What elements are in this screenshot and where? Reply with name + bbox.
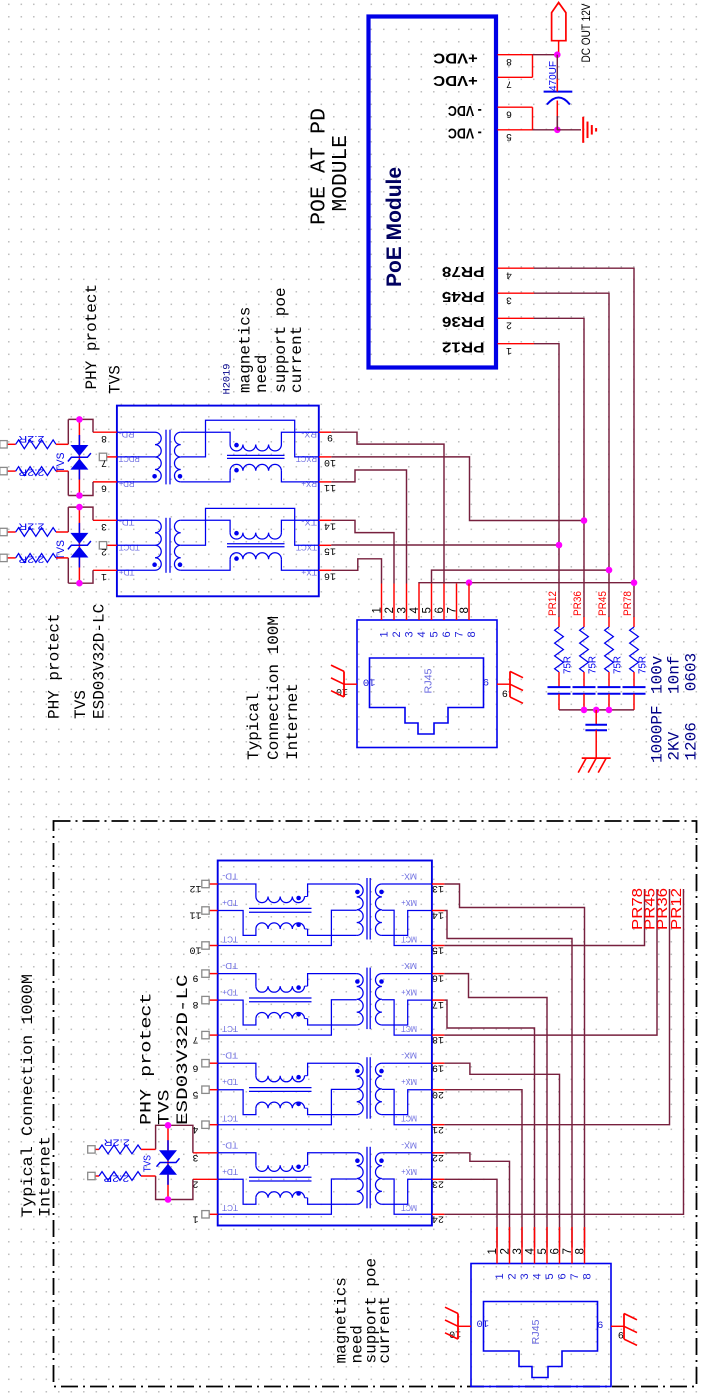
magnetics T2 pin 4	[192, 1121, 217, 1134]
svg-text:7: 7	[101, 457, 107, 468]
magnetics T2 pin 6	[192, 1060, 217, 1073]
svg-text:2: 2	[384, 607, 396, 613]
svg-text:Connection 100M: Connection 100M	[265, 616, 283, 760]
capacitor 1000PF (PR12)	[548, 687, 571, 710]
power port DC OUT 12V	[552, 3, 566, 55]
svg-text:1: 1	[379, 631, 391, 637]
svg-text:22: 22	[432, 1151, 444, 1162]
wire pin19 to RJ pin6	[444, 1063, 559, 1247]
svg-text:ESD03V32D-LC: ESD03V32D-LC	[91, 604, 109, 719]
svg-text:current: current	[288, 326, 306, 393]
PoE pin 8	[498, 55, 533, 66]
label TVS (upper TVS)	[107, 365, 125, 394]
svg-text:MX+: MX+	[401, 1077, 417, 1087]
pin names TD-/TD+/TCT unit4	[222, 1140, 238, 1213]
svg-text:23: 23	[432, 1177, 444, 1188]
label ESD03V32D-LC (100M)	[91, 604, 109, 719]
label H2019	[222, 364, 234, 395]
svg-text:MX-: MX-	[401, 1140, 417, 1150]
svg-text:7: 7	[562, 1248, 574, 1254]
svg-text:RX-: RX-	[301, 430, 317, 440]
svg-text:100v: 100v	[649, 655, 667, 694]
PoE pin 2	[498, 318, 535, 329]
label PHY protect (upper TVS)	[83, 284, 101, 390]
magnetics T1 pin 14 (TX-)	[301, 518, 336, 531]
svg-text:8: 8	[466, 631, 478, 637]
wire pin21 PR36	[444, 889, 669, 1125]
pin names MX-/MX+/MCT unit4	[401, 1140, 417, 1213]
magnetics T2 pin 2	[192, 1177, 217, 1188]
note magnetics need support poe current (100M)	[237, 287, 307, 393]
svg-text:10: 10	[189, 944, 201, 955]
svg-text:TCT: TCT	[222, 934, 238, 944]
wire net3 pin11 RX+	[331, 470, 406, 584]
svg-text:9: 9	[192, 972, 198, 983]
svg-text:PR36: PR36	[572, 591, 584, 616]
svg-text:TVS: TVS	[156, 1090, 174, 1126]
svg-text:TVS: TVS	[143, 1155, 154, 1172]
label TVS (D2)	[55, 540, 67, 560]
net label PR45 (1000M)	[642, 888, 659, 930]
svg-text:TX+: TX+	[301, 568, 317, 578]
svg-text:current: current	[376, 1296, 394, 1363]
pin name +VDC (pin7)	[433, 72, 478, 89]
junction PR45 node	[606, 567, 613, 574]
svg-text:RD+: RD+	[119, 479, 135, 489]
svg-text:1: 1	[494, 1273, 506, 1279]
label TVS (100M)	[72, 690, 90, 719]
label PHY protect (1000M)	[138, 993, 156, 1126]
net label PR78	[622, 591, 634, 616]
svg-text:PR78: PR78	[442, 263, 485, 280]
svg-text:15: 15	[324, 544, 336, 555]
svg-text:75R: 75R	[563, 656, 574, 674]
svg-text:3: 3	[101, 520, 107, 531]
wire PR78 lower	[633, 583, 635, 617]
svg-text:2.2R: 2.2R	[104, 1137, 130, 1148]
svg-text:10: 10	[476, 1316, 489, 1328]
svg-text:TCT: TCT	[222, 1114, 238, 1124]
svg-text:5: 5	[422, 607, 434, 613]
svg-text:- VDC: - VDC	[448, 102, 482, 119]
svg-text:8: 8	[575, 1248, 587, 1254]
svg-text:8: 8	[506, 55, 512, 66]
magnetics T1 pin 10 (RXCT)	[295, 454, 336, 467]
svg-text:PR12: PR12	[442, 339, 485, 356]
svg-text:470UF: 470UF	[547, 61, 559, 91]
svg-text:19: 19	[432, 1061, 444, 1072]
svg-text:6: 6	[101, 482, 107, 493]
TVS D2 assembly (100M lower)	[68, 504, 93, 587]
junction -VDC node	[554, 127, 561, 134]
resistor 2.2R R3	[0, 520, 68, 536]
svg-text:TD-: TD-	[119, 518, 135, 528]
svg-text:1206: 1206	[683, 722, 701, 760]
svg-text:2.2R: 2.2R	[18, 466, 44, 477]
svg-text:9: 9	[618, 1328, 624, 1339]
pin names MX-/MX+/MCT unit3	[401, 1051, 417, 1124]
svg-text:5: 5	[429, 631, 441, 637]
svg-text:24: 24	[432, 1212, 444, 1223]
svg-text:PoE Module: PoE Module	[383, 167, 406, 287]
junction bus2	[593, 707, 600, 714]
svg-text:Internet: Internet	[284, 683, 302, 760]
svg-text:7: 7	[454, 631, 466, 637]
svg-text:PHY protect: PHY protect	[46, 613, 64, 719]
capacitor C1 470UF polarized	[544, 79, 573, 130]
svg-text:Internet: Internet	[37, 1136, 55, 1217]
wire pin13 to RJ pin8	[444, 884, 584, 1248]
svg-text:3: 3	[506, 293, 512, 304]
magnetics T2 pin 21	[432, 1123, 445, 1134]
wire PR12 vertical	[534, 344, 559, 617]
PoE pin 5	[498, 130, 533, 141]
wire pin17 to RJ pin4	[444, 1000, 534, 1247]
pin names TD-/TD+/TCT unit3	[222, 1051, 238, 1124]
magnetics T1 pin 8 (RD-)	[93, 430, 135, 443]
label Typical Connection 100M Internet	[245, 616, 302, 760]
wire net2 pin14 TX-	[331, 520, 394, 583]
svg-text:2: 2	[507, 1273, 519, 1279]
transformer RD/RX windings (100M upper)	[117, 420, 319, 484]
svg-text:1: 1	[101, 570, 107, 581]
svg-text:PR12: PR12	[547, 591, 559, 616]
svg-text:6: 6	[192, 1061, 198, 1072]
svg-text:4: 4	[506, 268, 512, 279]
note magnetics need support poe current (1000M)	[333, 1258, 395, 1364]
svg-text:20: 20	[432, 1088, 444, 1099]
junction PR78 node	[631, 579, 638, 586]
label 470UF	[547, 61, 559, 91]
svg-text:RDCT: RDCT	[118, 454, 140, 464]
wire pin20 to RJ pin3	[444, 1090, 522, 1248]
magnetics T2 pin 18	[432, 1033, 445, 1044]
wire net4 PR78 link	[419, 582, 634, 585]
svg-text:2KV: 2KV	[666, 731, 684, 760]
net label PR36	[572, 591, 584, 616]
magnetics T1 H2019 box	[117, 406, 319, 597]
svg-text:2: 2	[101, 545, 107, 556]
wire PR36 vertical	[534, 318, 584, 617]
svg-text:8: 8	[101, 432, 107, 443]
PoE module U1 box	[369, 17, 497, 368]
junction bus1	[581, 707, 588, 714]
label cap values 1000PF 2KV 1206 / 100v 10nf 0603	[649, 653, 701, 763]
svg-text:7: 7	[447, 607, 459, 613]
svg-text:PHY protect: PHY protect	[83, 284, 101, 390]
resistor 75R (PR78)	[630, 617, 649, 687]
pin name PR12	[442, 339, 485, 356]
svg-text:TCT: TCT	[222, 1024, 238, 1034]
junction PR36/RXCT	[581, 517, 588, 524]
magnetics T2 pin 13	[432, 882, 445, 893]
transformer TD/TX windings (100M lower)	[117, 508, 319, 572]
magnetics T2 pin 15	[432, 944, 445, 955]
svg-text:4: 4	[409, 607, 421, 614]
svg-text:MX-: MX-	[401, 961, 417, 971]
connector J2 RJ45 (1000M)	[445, 1227, 637, 1387]
wire net6 pin9 RX-	[331, 432, 444, 583]
net label PR36 (1000M)	[654, 888, 671, 930]
TVS D1 assembly (100M upper)	[68, 416, 93, 499]
svg-text:3: 3	[397, 607, 409, 613]
svg-text:RJ45: RJ45	[424, 668, 435, 693]
svg-text:3: 3	[519, 1273, 531, 1279]
TVS D3 assembly (1000M)	[156, 1122, 193, 1203]
magnetics T2 pin 9	[192, 970, 217, 983]
svg-text:1: 1	[506, 344, 512, 355]
svg-text:6: 6	[441, 631, 453, 637]
svg-text:MODULE: MODULE	[330, 135, 353, 212]
svg-text:75R: 75R	[638, 656, 649, 674]
resistor 2.2R R4	[0, 553, 68, 564]
magnetics T1 pin 16 (TX+)	[301, 568, 336, 581]
svg-text:MX-: MX-	[401, 872, 417, 882]
PoE pin 7	[498, 77, 533, 88]
pin name PR45	[442, 288, 485, 305]
svg-text:TVS: TVS	[72, 690, 90, 719]
svg-text:1000PF: 1000PF	[649, 705, 667, 763]
svg-text:8: 8	[459, 607, 471, 613]
svg-text:10nf: 10nf	[666, 656, 684, 694]
wire pin18 PR45	[444, 889, 657, 1035]
svg-text:6: 6	[550, 1248, 562, 1254]
svg-text:9: 9	[502, 686, 508, 697]
dash-dot section border	[54, 821, 697, 1387]
svg-text:TD+: TD+	[222, 898, 238, 908]
power ground GND1	[583, 117, 596, 143]
transformer/choke unit1 (1000M)	[218, 878, 432, 946]
pin names TD-/TD+/TCT unit1	[222, 872, 238, 945]
wire pin16 to RJ pin5	[444, 974, 547, 1248]
pin name -VDC (pin6)	[448, 102, 482, 119]
magnetics T2 box (1000M)	[218, 861, 432, 1226]
magnetics T1 pin 7 (RDCT)	[99, 453, 139, 467]
wire cap common bus	[559, 709, 634, 711]
svg-text:3: 3	[512, 1248, 524, 1254]
capacitor 2KV 10nf	[585, 710, 607, 758]
wire pins 7-8 tie	[532, 55, 534, 78]
svg-text:5: 5	[537, 1248, 549, 1254]
wire pin23 to RJ pin1	[444, 1179, 497, 1247]
resistor 75R (PR12)	[555, 617, 574, 687]
svg-text:MX+: MX+	[401, 898, 417, 908]
transformer/choke unit4 (1000M)	[218, 1147, 432, 1215]
wire +VDC to C1	[556, 55, 558, 92]
net label PR12	[547, 591, 559, 616]
magnetics T2 pin 3	[192, 1151, 217, 1162]
earth ground GND2	[578, 758, 611, 773]
label TVS (1000M)	[156, 1090, 174, 1126]
svg-text:15: 15	[432, 944, 444, 955]
magnetics T2 pin 23	[432, 1177, 445, 1188]
svg-text:POE AT PD: POE AT PD	[309, 108, 332, 225]
svg-text:RXCT: RXCT	[295, 454, 317, 464]
svg-text:75R: 75R	[613, 656, 624, 674]
svg-text:4: 4	[532, 1273, 544, 1279]
svg-text:7: 7	[569, 1273, 581, 1279]
resistor 2.2R R2	[0, 466, 68, 477]
svg-text:H2019: H2019	[222, 364, 234, 395]
wire net5 PR45 link	[432, 570, 610, 583]
pin name -VDC (pin5)	[448, 125, 482, 142]
svg-text:DC OUT 12V: DC OUT 12V	[579, 4, 593, 63]
svg-text:8: 8	[192, 998, 198, 1009]
svg-text:Typical: Typical	[245, 693, 263, 760]
PoE module name text	[383, 167, 406, 287]
pin name PR36	[442, 313, 485, 330]
svg-text:5: 5	[506, 130, 512, 141]
svg-text:TD-: TD-	[222, 1051, 238, 1061]
svg-text:9: 9	[597, 1317, 603, 1329]
resistor 75R (PR45)	[605, 617, 624, 687]
net label PR45	[597, 591, 609, 616]
resistor 75R (PR36)	[580, 617, 599, 687]
svg-text:TD-: TD-	[222, 872, 238, 882]
resistor 2.2R R5	[88, 1137, 156, 1154]
svg-text:18: 18	[432, 1033, 444, 1044]
svg-text:2: 2	[391, 631, 403, 637]
magnetics T2 pin 14	[432, 909, 445, 920]
svg-text:RD-: RD-	[119, 430, 135, 440]
svg-text:8: 8	[582, 1273, 594, 1279]
magnetics T1 pin 1 (TD+)	[93, 568, 135, 581]
magnetics T2 pin 11	[189, 907, 217, 920]
svg-text:2: 2	[506, 318, 512, 329]
junction PR12/TXCT	[556, 542, 563, 549]
svg-text:21: 21	[432, 1123, 444, 1134]
wire pin15 PR78	[444, 889, 644, 946]
svg-text:PR45: PR45	[597, 591, 609, 616]
pin names MX-/MX+/MCT unit2	[401, 961, 417, 1034]
svg-text:7: 7	[506, 77, 512, 88]
svg-text:4: 4	[416, 631, 428, 637]
svg-text:6: 6	[434, 607, 446, 613]
pin names TD-/TD+/TCT unit2	[222, 961, 238, 1034]
svg-text:TDCT: TDCT	[118, 543, 140, 553]
svg-text:TVS: TVS	[107, 365, 125, 394]
net label PR78 (1000M)	[629, 888, 646, 930]
PoE pin 4	[498, 268, 535, 279]
svg-text:2.2R: 2.2R	[18, 433, 44, 444]
svg-text:12: 12	[189, 882, 201, 893]
magnetics T2 pin 20	[432, 1088, 445, 1099]
svg-text:4: 4	[525, 1248, 537, 1255]
wire pin24 PR12	[444, 889, 683, 1214]
svg-text:RX+: RX+	[301, 479, 317, 489]
PoE pin 6	[498, 107, 533, 118]
svg-text:TVS: TVS	[55, 540, 67, 560]
svg-text:RJ45: RJ45	[531, 1319, 542, 1344]
svg-text:2.2R: 2.2R	[103, 1173, 129, 1184]
svg-text:PR45: PR45	[442, 288, 485, 305]
svg-text:5: 5	[544, 1273, 556, 1279]
svg-text:TD+: TD+	[119, 568, 135, 578]
label ESD03V32D-LC (1000M)	[174, 975, 192, 1126]
pin names MX-/MX+/MCT unit1	[401, 872, 417, 945]
svg-text:6: 6	[557, 1273, 569, 1279]
svg-text:13: 13	[432, 882, 444, 893]
wire pin14 to RJ pin7	[444, 911, 572, 1248]
resistor 2.2R R6	[88, 1172, 156, 1184]
wire PR78 vertical	[534, 268, 634, 583]
connector J1 RJ45 (100M)	[331, 584, 523, 748]
svg-text:2.2R: 2.2R	[18, 520, 44, 531]
junction bus3	[606, 707, 613, 714]
svg-text:7: 7	[192, 1033, 198, 1044]
title POE AT PD MODULE	[309, 108, 354, 225]
svg-text:+VDC: +VDC	[433, 50, 478, 67]
magnetics T2 pin 12	[189, 880, 217, 893]
svg-text:PR12: PR12	[668, 888, 685, 930]
svg-text:MX+: MX+	[401, 988, 417, 998]
svg-text:+VDC: +VDC	[433, 72, 478, 89]
svg-text:TD+: TD+	[222, 988, 238, 998]
svg-text:ESD03V32D-LC: ESD03V32D-LC	[174, 975, 192, 1126]
capacitor 1000PF (PR78)	[623, 687, 646, 710]
svg-text:10: 10	[363, 676, 376, 688]
magnetics T1 pin 11 (RX+)	[301, 479, 336, 492]
transformer/choke unit3 (1000M)	[218, 1057, 432, 1125]
svg-text:TD+: TD+	[222, 1167, 238, 1177]
svg-text:PHY protect: PHY protect	[138, 993, 156, 1126]
svg-text:TXCT: TXCT	[295, 543, 317, 553]
label TVS (D1)	[55, 453, 67, 473]
magnetics T2 pin 24	[432, 1212, 445, 1223]
svg-text:TD+: TD+	[222, 1077, 238, 1087]
pin name PR78	[442, 263, 485, 280]
magnetics T1 pin 2 (TDCT)	[99, 542, 139, 556]
wire pins 5-6 tie	[532, 107, 534, 130]
label PHY protect (100M)	[46, 613, 64, 719]
label TVS (D3)	[143, 1155, 154, 1172]
svg-text:16: 16	[432, 972, 444, 983]
svg-text:- VDC: - VDC	[448, 125, 482, 142]
svg-text:2: 2	[500, 1248, 512, 1254]
svg-text:TVS: TVS	[55, 453, 67, 473]
wire pin22 to RJ pin2	[444, 1153, 509, 1248]
magnetics T2 pin 8	[192, 996, 217, 1009]
svg-text:9: 9	[483, 675, 489, 687]
svg-text:PR36: PR36	[442, 313, 485, 330]
svg-text:TCT: TCT	[222, 1203, 238, 1213]
magnetics T1 pin 6 (RD+)	[93, 479, 135, 492]
PoE pin 3	[498, 293, 535, 304]
magnetics T2 pin 19	[432, 1061, 445, 1072]
pin name +VDC (pin8)	[433, 50, 478, 67]
wire PR45 vertical	[534, 293, 609, 617]
capacitor 1000PF (PR45)	[598, 687, 621, 710]
junction +VDC node	[554, 51, 561, 58]
svg-text:TD-: TD-	[222, 961, 238, 971]
svg-text:1: 1	[192, 1212, 198, 1223]
magnetics T1 pin 9 (RX-)	[301, 430, 333, 443]
wire PR36 pin10 RXCT	[331, 457, 584, 521]
svg-text:magnetics: magnetics	[237, 307, 255, 393]
magnetics T1 pin 15 (TXCT)	[295, 543, 336, 556]
svg-text:1: 1	[487, 1248, 499, 1254]
svg-text:Typical Connection 1000M: Typical Connection 1000M	[19, 974, 37, 1217]
svg-text:need: need	[253, 355, 271, 393]
wire PR12 pin15 TXCT	[331, 544, 559, 546]
resistor 2.2R R1	[0, 433, 68, 449]
svg-text:0603: 0603	[683, 653, 701, 691]
label DC OUT 12V	[579, 4, 593, 63]
transformer/choke unit2 (1000M)	[218, 968, 432, 1036]
magnetics T2 pin 5	[192, 1086, 217, 1099]
magnetics T2 pin 22	[432, 1151, 445, 1162]
label Typical Connection 1000M Internet	[19, 974, 55, 1217]
